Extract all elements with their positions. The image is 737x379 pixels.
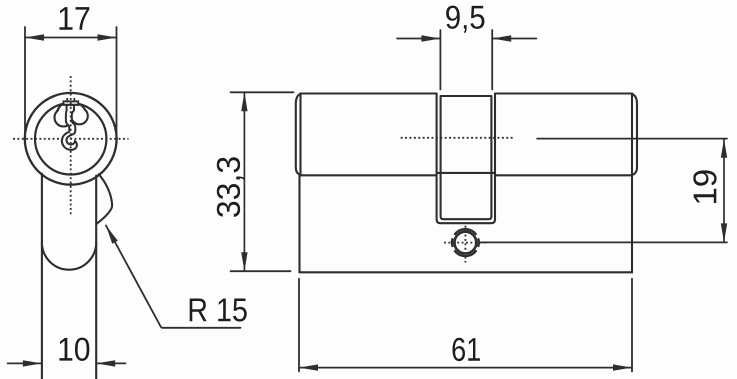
screw thread arc left bbox=[451, 238, 454, 247]
R15 fillet flap bbox=[96, 174, 112, 224]
front view: body right side bbox=[95, 176, 97, 379]
dim 61 arrow left bbox=[299, 364, 318, 370]
dim 61 extension left bbox=[298, 279, 300, 372]
keyway channel with bottom hook bbox=[62, 105, 77, 150]
dim 19 dimension line bbox=[723, 139, 725, 243]
dim 33,3 extension top bbox=[231, 91, 294, 93]
dim 9,5 extension left bbox=[439, 30, 441, 90]
dim 19 arrow bottom bbox=[721, 223, 727, 242]
dim 17 dimension line bbox=[25, 37, 117, 39]
cam outer contour bbox=[437, 94, 495, 224]
dim 10 arrow left bbox=[23, 360, 42, 366]
cam crossing line bbox=[437, 172, 495, 174]
dim 10 dimension line left bbox=[8, 362, 42, 364]
keyway left funnel bbox=[58, 105, 67, 113]
cam inner contour bbox=[441, 96, 492, 219]
centerline extension solid to dim 19 bbox=[537, 138, 727, 140]
dim 9,5 dimension line left bbox=[397, 38, 440, 40]
side view: barrel left chamfer bbox=[296, 94, 301, 176]
dim 61 extension right bbox=[631, 279, 633, 372]
keyway lip tick left bbox=[66, 99, 68, 102]
screw thread arc top bbox=[454, 229, 476, 235]
screw centerline horizontal bbox=[444, 242, 488, 244]
side view: barrel/body separation line bbox=[300, 174, 632, 176]
dim text 19 bbox=[693, 170, 716, 203]
keyway lip bbox=[63, 101, 78, 104]
dim 19 arrow top bbox=[721, 139, 727, 158]
side view: body outline bbox=[300, 175, 633, 272]
screw thread arc bottom bbox=[454, 250, 476, 256]
keyway left lobe bbox=[55, 109, 73, 127]
dim 33,3 dimension line bbox=[243, 92, 245, 271]
dim 9,5 arrow left bbox=[421, 35, 440, 41]
dim 9,5 dimension line right bbox=[492, 38, 536, 40]
R15 leader line bbox=[106, 226, 241, 328]
front view: body left side bbox=[41, 174, 43, 379]
dim text 61 bbox=[453, 338, 480, 361]
dim 33,3 extension bottom bbox=[231, 270, 291, 272]
side view: barrel right edge line bbox=[631, 94, 633, 176]
dim text 17 bbox=[59, 7, 89, 30]
dim 61 arrow right bbox=[613, 364, 632, 370]
keyway right funnel bbox=[75, 105, 85, 114]
R15 leader arrow bbox=[106, 226, 118, 244]
keyway lip tick right bbox=[73, 99, 75, 102]
centerline horizontal (front view) bbox=[13, 138, 129, 140]
dim 61 dimension line bbox=[299, 367, 632, 369]
screw hole circle bbox=[455, 232, 477, 254]
dim 10 arrow right bbox=[96, 360, 115, 366]
screw leader line to dim 19 bbox=[481, 241, 727, 243]
dim 17 extension line left bbox=[24, 27, 26, 136]
dim 17 arrow left bbox=[25, 34, 44, 40]
dim 10 dimension line right bbox=[96, 362, 125, 364]
front view: body rounded bottom arc bbox=[42, 243, 96, 270]
side view: barrel top edge bbox=[300, 92, 632, 94]
screw centerline vertical bbox=[464, 226, 466, 263]
dim 17 extension line right bbox=[116, 27, 118, 136]
screw thread arc right bbox=[477, 238, 480, 247]
dim 33,3 arrow bottom bbox=[241, 252, 247, 271]
dim 9,5 extension right bbox=[491, 30, 493, 90]
dim text 10 bbox=[59, 338, 89, 361]
dim 17 arrow right bbox=[98, 34, 117, 40]
front view: plug inner circle bbox=[35, 103, 106, 174]
front view: cylinder outer circle bbox=[25, 93, 117, 185]
dim 9,5 arrow right bbox=[492, 35, 511, 41]
keyway right lobe bbox=[71, 108, 88, 125]
side view: barrel left edge line bbox=[299, 94, 301, 176]
side view centerline dotted bbox=[401, 137, 513, 139]
dim 33,3 arrow top bbox=[241, 92, 247, 111]
side view: barrel right chamfer bbox=[632, 94, 637, 176]
dim text 9,5 bbox=[446, 6, 484, 33]
keyway lip underline bbox=[62, 104, 82, 106]
dim text 33,3 bbox=[217, 157, 244, 217]
dim text R 15 bbox=[190, 299, 247, 322]
centerline vertical (front view) bbox=[70, 76, 72, 216]
